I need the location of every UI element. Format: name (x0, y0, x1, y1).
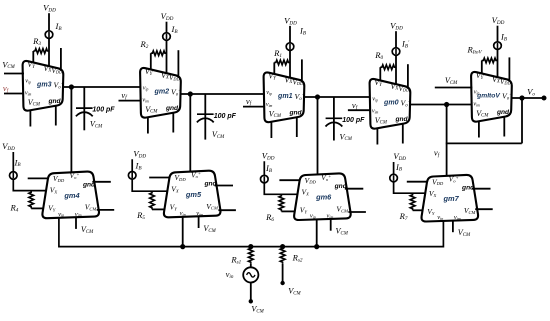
net label VDD (gmItoV bias supply) (492, 15, 505, 26)
net label Vo (filter output) (527, 87, 535, 98)
wire: vin source to VCM terminal (250, 283, 252, 302)
wire: VDD pin stub of gm1 (301, 59, 303, 80)
net label VCM (vim of gm4) (81, 225, 94, 235)
wire: VDD pin stub of gm7 (407, 181, 428, 183)
svg-text:100 pF: 100 pF (92, 107, 115, 114)
net label VCM (C2 bottom) (212, 130, 225, 140)
wire: gm6 vip down to bus (316, 220, 318, 247)
wire: vim pin stub of gm7 (452, 221, 454, 232)
capacitor C1 100pF (76, 107, 115, 131)
wire: gnd right pin of gm4 (92, 181, 111, 183)
capacitor C3 100pF (326, 117, 366, 141)
node junction (Rs1 on bus) (248, 244, 253, 249)
wire: gnd right pin of gm5 (215, 185, 234, 187)
node C junction (gm1 output) (315, 94, 320, 99)
wire: node B to C2 (204, 94, 206, 115)
net label VDD (gm5 bias supply) (133, 149, 146, 160)
net label VDD (gm6 bias supply) (262, 150, 275, 161)
svg-text:gnd: gnd (47, 98, 61, 105)
wire: VCM right pin of gm5 (218, 209, 236, 211)
wire: node A to C1 (83, 87, 85, 109)
wire: resistor to VY pin of gm5 (152, 208, 167, 210)
svg-text:100 pF: 100 pF (342, 117, 365, 124)
svg-text:gmItoV: gmItoV (476, 93, 500, 100)
wire: gnd bottom pin of gmItoV (503, 116, 505, 136)
svg-text:gm5: gm5 (185, 190, 202, 199)
wire: gm1 output to node C (304, 96, 371, 98)
wire: VCM bottom pin of gmItoV (478, 122, 480, 138)
resistor R7 (gm7 degeneration) (399, 193, 415, 222)
wire: resistor to VY pin of gm4 (31, 207, 45, 209)
wire: vf to vim of gm3 (4, 93, 24, 95)
wire: gnd bottom pin of gm1 (296, 117, 298, 137)
wire: VDD supply down to VX pin of gm5 (132, 159, 167, 191)
wire: VDD supply down to VX pin of gm1 (289, 26, 291, 78)
wire: VDD supply down to VX pin of gm0 (395, 31, 397, 84)
wire: VDD pin stub of gm4 (28, 177, 49, 179)
svg-text:gnd: gnd (288, 109, 302, 116)
wire: resistor to VY pin of gm3 (32, 51, 34, 63)
capacitor C2 100pF (197, 113, 237, 140)
node junction (gm5 vip on bus) (180, 244, 185, 249)
wire: gmItoV output to Vo terminal (511, 97, 545, 99)
net label VCM (C1 bottom) (90, 120, 103, 130)
op-amp style transconductor gm2 (140, 67, 181, 118)
wire: gnd bottom pin of gm3 (55, 105, 57, 125)
resistor R6 (gm6 degeneration) (265, 194, 284, 223)
svg-text:gm1: gm1 (277, 92, 293, 100)
op-amp style transconductor gm4 (42, 171, 99, 218)
wire: VCM bottom pin of gm1 (270, 122, 272, 138)
node A junction (gm3 output) (69, 84, 74, 89)
terminal VCM (vin return) (249, 299, 253, 303)
resistor RItoV (gmItoV degeneration) (467, 45, 498, 63)
resistor R0 (gm0 degeneration) (374, 50, 396, 70)
svg-text:gm2: gm2 (154, 88, 170, 96)
svg-text:gnd: gnd (165, 105, 179, 112)
wire: gnd right pin of gm7 (472, 188, 491, 190)
current source IB (gm5) (128, 161, 142, 180)
net label VCM (below Rs2) (288, 287, 301, 297)
wire: gnd bottom pin of gm0 (402, 123, 404, 143)
net label VCM (vim of gm5) (203, 224, 216, 234)
resistor R3 (gm3 degeneration) (32, 36, 49, 53)
wire: resistor to VY pin of gm1 (273, 62, 275, 74)
wire: vf stub to vim of gm2 (119, 100, 142, 102)
node B junction (gm2 output) (188, 91, 193, 96)
wire: VDD supply down to VX pin of gm7 (394, 162, 425, 193)
svg-text:gm0: gm0 (383, 99, 399, 107)
node junction (gm6 vip on bus) (314, 244, 319, 249)
wire: resistor to VY pin of gm7 (413, 209, 425, 211)
net label VCM (gm3 vip input) (2, 60, 15, 70)
svg-text:gnd: gnd (394, 116, 408, 123)
current source IB (gmItoV) (494, 32, 508, 50)
svg-text:100 pF: 100 pF (214, 113, 237, 120)
wire: gnd right pin of gm6 (345, 188, 364, 190)
wire: vf stub to vim of gm1 (243, 106, 265, 108)
net label vf (gm2 vim input) (121, 90, 128, 101)
net label VDD (gm3 bias supply) (43, 3, 56, 14)
node junction (Rs2 on bus) (280, 244, 285, 249)
current source IB (gm1) (286, 26, 307, 51)
terminal VCM (Rs2 return) (280, 281, 284, 285)
net label VDD (gm1 bias supply) (284, 15, 297, 26)
wire: VDD pin stub of gm0 (407, 64, 409, 87)
svg-text:gm6: gm6 (315, 193, 332, 202)
current source IB (gm2) (163, 24, 179, 40)
wire: gm0 output to node F (410, 104, 472, 106)
resistor R2 (gm2 degeneration) (139, 39, 166, 56)
net label VDD (gm2 bias supply) (161, 11, 174, 22)
wire: VCM right pin of gm7 (475, 208, 493, 210)
op-amp style transconductor gm5 (164, 170, 221, 217)
current source IB (gm0) (392, 39, 410, 56)
net label vf (gm0 vim input) (352, 100, 359, 111)
net label VDD (gm4 bias supply) (2, 141, 15, 152)
wire: VCM stub to vip of gmItoV (435, 87, 473, 89)
node D junction (gmItoV output) (519, 95, 524, 100)
wire: VDD supply down to VX pin of gm2 (166, 22, 168, 74)
wire: vim pin stub of gm6 (330, 220, 332, 231)
current source IB (gm7) (390, 162, 403, 182)
wire: resistor to VY pin of gm6 (281, 210, 296, 212)
wire: node A down to gm4 output (70, 87, 72, 174)
wire: VCM right pin of gm4 (97, 209, 115, 211)
op-amp style transconductor gm1 (264, 72, 305, 123)
net label VDD (gm0 bias supply) (390, 21, 403, 32)
wire: Rs2 to VCM terminal (282, 264, 284, 283)
svg-text:gnd: gnd (496, 109, 510, 116)
op-amp style transconductor gm6 (294, 173, 351, 220)
wire: Rs1 to vin source (250, 264, 252, 268)
wire: VDD pin stub of gm2 (177, 50, 179, 76)
current source IB (gm6) (261, 163, 273, 183)
wire: VDD pin stub of gm6 (279, 179, 300, 181)
wire: node C down to gm6 output (317, 97, 319, 175)
wire: VCM bottom pin of gm0 (376, 129, 378, 145)
net label VCM (vim of gm7) (458, 228, 471, 238)
wire: VCM bottom pin of gm3 (29, 111, 31, 127)
current source IB (gm3) (45, 21, 62, 38)
svg-text:gm7: gm7 (442, 194, 459, 203)
net label VCM (gmItoV vip input) (445, 76, 458, 86)
voltage source vin (AC input) (226, 267, 259, 282)
resistor R5 (gm5 degeneration) (136, 191, 154, 221)
wire: VDD pin stub of gmItoV (508, 57, 510, 80)
wire: gm2 output to node B (180, 93, 265, 95)
wire: node B down to gm5 output (189, 94, 191, 173)
net label vf (feedback line) (434, 148, 441, 159)
svg-text:gm4: gm4 (63, 191, 79, 200)
wire: VDD supply down to VX pin of gm4 (13, 152, 46, 191)
wire: VDD supply down to VX pin of gm3 (48, 13, 50, 66)
op-amp style transconductor gm0 (370, 78, 411, 129)
op-amp style transconductor gm3 (23, 60, 64, 111)
wire: VDD pin stub of gm3 (60, 48, 62, 69)
resistor R1 (gm1 degeneration) (273, 48, 290, 65)
op-amp style transconductor gmItoV (471, 71, 512, 122)
wire: VCM right pin of gm6 (348, 211, 366, 213)
wire: vf node down to gm7 output (446, 105, 448, 178)
net label vf (gm1 vim input) (246, 96, 253, 107)
wire: feedback from output node down (521, 98, 523, 143)
resistor Rs2 (source resistor) (280, 247, 303, 264)
wire: gnd bottom pin of gm2 (172, 112, 174, 132)
wire: VDD supply down to VX pin of gmItoV (497, 26, 499, 78)
wire: gm3 output to node A (63, 86, 141, 88)
wire: resistor to VY pin of gmItoV (481, 60, 483, 74)
wire: node C to C3 (333, 97, 335, 119)
resistor Rs1 (source resistor) (230, 247, 253, 266)
node F junction vf (gm0 output) (444, 102, 449, 107)
wire: vim pin stub of gm4 (75, 218, 77, 229)
op-amp style transconductor gm7 (421, 175, 478, 222)
wire: gm5 vip down to bus (182, 217, 184, 247)
wire: feedback across to vf column (446, 142, 522, 144)
net label vf (gm3 vim input, feedback) (3, 83, 10, 94)
net label VCM (below vin) (251, 305, 264, 315)
wire: VDD pin stub of gm5 (149, 177, 170, 179)
wire: VDD supply down to VX pin of gm6 (264, 161, 297, 194)
svg-text:gm3: gm3 (36, 81, 52, 89)
current source IB (gm4) (10, 157, 22, 179)
wire: resistor to VY pin of gm2 (150, 53, 152, 70)
resistor R4 (gm4 degeneration) (9, 191, 33, 214)
net label VDD (gm7 bias supply) (393, 151, 406, 162)
wire: VCM to vip of gm3 (4, 73, 24, 75)
wire: vf stub to vim of gm0 (348, 109, 371, 111)
net label VCM (vim of gm6) (336, 227, 349, 237)
wire: resistor to VY pin of gm0 (379, 67, 381, 81)
wire: input bus (gm4 vip to gm7 vip) (59, 218, 444, 247)
wire: VCM bottom pin of gm2 (147, 118, 149, 134)
wire: vim pin stub of gm5 (198, 217, 200, 228)
terminal Vo (output) (542, 96, 547, 101)
net label VCM (C3 bottom) (340, 132, 353, 142)
